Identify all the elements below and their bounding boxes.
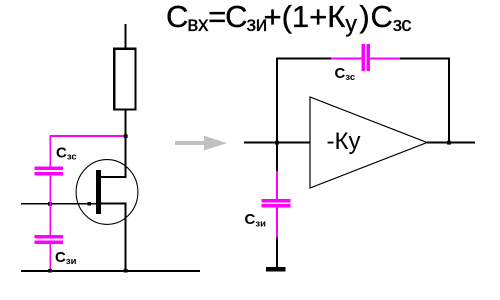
wire source vertical xyxy=(125,203,127,271)
wire cap column magenta lower xyxy=(276,207,278,237)
capacitor Cзи (right) plate 2 xyxy=(262,204,291,207)
node junction gate-C xyxy=(48,202,52,206)
wire supply vertical to resistor xyxy=(125,24,127,48)
wire cap column magenta upper xyxy=(276,171,278,199)
wire magenta column lower xyxy=(49,244,51,271)
wire feedback magenta horizontal xyxy=(49,135,126,137)
svg-text:-Ку: -Ку xyxy=(327,128,361,155)
wire source lead xyxy=(99,203,127,205)
arrow (gray implies) head xyxy=(204,136,227,151)
capacitor Cзи (left) plate 1 xyxy=(35,235,63,238)
wire output xyxy=(427,142,475,144)
capacitor Cзс (left) plate 1 xyxy=(35,166,63,170)
node junction source-bottom xyxy=(124,269,128,273)
wire magenta column upper xyxy=(49,136,51,167)
capacitor Cзи (left) plate 2 xyxy=(35,241,63,244)
wire top feedback magenta left xyxy=(331,58,362,60)
node junction input xyxy=(275,141,279,145)
transistor VT1 channel bar xyxy=(96,170,101,214)
node junction C-bottom xyxy=(48,269,52,273)
capacitor Cзи (right) plate 1 xyxy=(262,199,291,202)
wire gate lead xyxy=(21,203,97,205)
wire bottom rail xyxy=(21,270,200,272)
wire top feedback black right xyxy=(400,58,449,60)
ground xyxy=(266,267,286,271)
wire input to cap black xyxy=(276,142,278,171)
node junction drain-feedback xyxy=(124,134,128,138)
wire resistor bottom to drain xyxy=(125,110,127,178)
node junction output xyxy=(447,141,451,145)
wire drain lead xyxy=(99,176,127,178)
transistor VT1 gate arrow nub xyxy=(88,202,92,206)
wire input xyxy=(244,142,310,144)
wire left vertical feedback xyxy=(276,58,278,143)
arrow (gray implies) shaft xyxy=(175,141,204,145)
capacitor Cзс (left) plate 2 xyxy=(35,172,63,176)
wire cap to ground black xyxy=(276,238,278,268)
wire top feedback magenta right xyxy=(370,58,400,60)
capacitor Cзс (right) plate 2 xyxy=(367,44,370,71)
wire magenta column middle xyxy=(49,176,51,236)
wire right vertical feedback xyxy=(448,58,450,143)
op-amp U1 triangle xyxy=(310,97,427,188)
wire top feedback black left xyxy=(276,58,331,60)
transistor VT1 circle xyxy=(76,160,138,225)
capacitor Cзс (right) plate 1 xyxy=(362,44,365,71)
resistor R1 xyxy=(114,49,135,110)
